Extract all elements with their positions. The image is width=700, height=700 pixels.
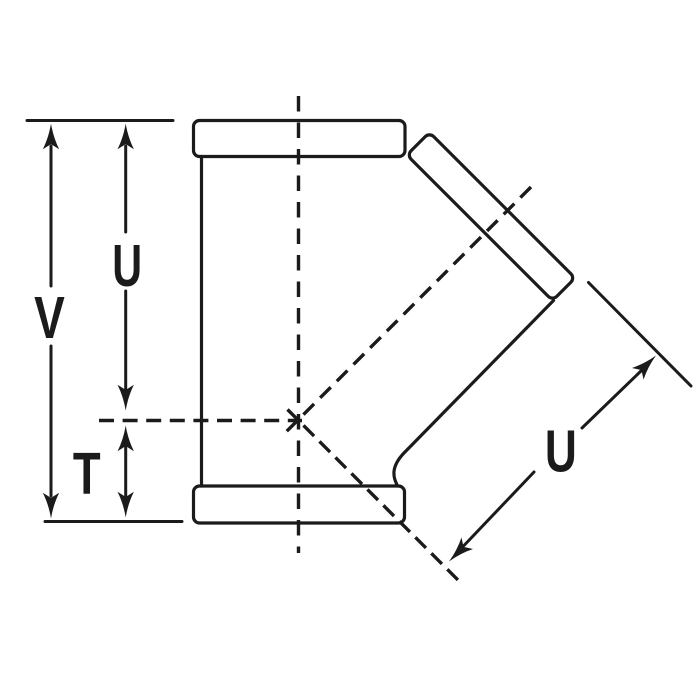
dimension U diagonal line [464,370,642,546]
vertical centerline [297,96,300,553]
arrowhead V top [43,124,59,150]
mirror diagonal centerline [288,410,459,581]
pipe body left edge [200,157,203,487]
diagonal extension line [589,283,692,387]
arrowhead U left bottom [118,385,134,411]
top socket band [194,121,406,157]
dimension T line [124,444,127,498]
arrowhead V bottom [43,493,59,519]
dimension V line [50,146,53,496]
arrowhead U diagonal lower [443,537,473,567]
svg-text:T: T [73,441,101,507]
branch lower edge and body fillet [394,301,554,487]
svg-text:U: U [545,419,577,485]
branch socket band [407,132,575,300]
arrowhead T top [118,426,134,452]
svg-text:U: U [112,233,142,299]
bottom socket band [194,486,405,523]
arrowhead T bottom [118,492,134,518]
dimension U left line [124,146,127,391]
bottom extension line [45,520,182,523]
top extension line [27,119,173,122]
horizontal centerline [99,419,302,422]
arrowhead U diagonal upper [632,350,662,380]
arrowhead U left top [118,124,134,150]
svg-text:V: V [34,286,65,352]
branch centerline [282,187,531,436]
